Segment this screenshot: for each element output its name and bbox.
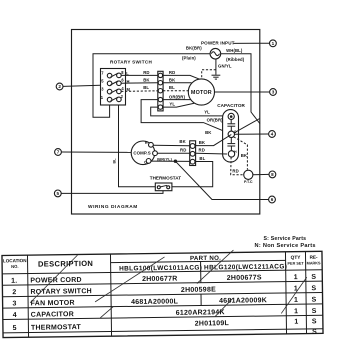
wire BK connector to capacitor C: [196, 135, 232, 146]
svg-text:2H01109L: 2H01109L: [195, 320, 230, 327]
callout circle 3: [270, 89, 277, 96]
svg-text:MOTOR: MOTOR: [191, 90, 212, 96]
svg-text:YL: YL: [169, 102, 175, 107]
svg-text:S: S: [312, 308, 317, 315]
wire OR(BR) connector to motor: [163, 99, 191, 101]
thermostat TH1: [150, 176, 181, 191]
wire RD connector to capacitor H: [196, 152, 227, 155]
svg-text:RD: RD: [169, 70, 175, 75]
svg-text:5: 5: [13, 325, 17, 332]
junction dot on comp C wire: [174, 160, 177, 163]
svg-text:GN/YL: GN/YL: [218, 63, 232, 68]
svg-text:RD: RD: [143, 70, 149, 75]
svg-text:RE-: RE-: [310, 255, 318, 260]
callout line to 5: [61, 191, 163, 194]
svg-text:6: 6: [271, 197, 274, 202]
svg-text:2: 2: [12, 289, 16, 296]
wire RD comp S to connector: [157, 152, 189, 154]
callout line to 2: [63, 85, 100, 86]
compressor COMP: [131, 141, 157, 165]
svg-text:POWER CORD: POWER CORD: [30, 277, 82, 285]
svg-text:BK: BK: [241, 153, 248, 158]
svg-text:5: 5: [57, 191, 60, 196]
svg-text:2H00677R: 2H00677R: [142, 276, 178, 283]
svg-text:ROTARY SWITCH: ROTARY SWITCH: [110, 60, 152, 65]
svg-text:4: 4: [271, 132, 274, 137]
svg-text:LOCATION: LOCATION: [3, 258, 27, 263]
svg-text:(BR(YL): (BR(YL): [157, 156, 173, 161]
wire capacitor C to power line: [234, 119, 260, 134]
svg-text:BK: BK: [199, 140, 206, 145]
callout circle 5: [54, 190, 61, 197]
callout line to 8: [253, 173, 269, 175]
svg-text:RD: RD: [180, 147, 186, 152]
wire switch pin2 down to thermostat: [119, 105, 156, 187]
svg-text:THERMOSTAT: THERMOSTAT: [31, 324, 82, 332]
callout circle 7: [55, 149, 62, 156]
svg-text:4: 4: [13, 312, 17, 319]
wire RD connector to motor: [163, 75, 200, 79]
svg-text:1: 1: [294, 308, 298, 315]
callout circle 4: [269, 131, 276, 138]
wire YL connector to motor: [163, 103, 194, 107]
terminal middle C: [228, 131, 234, 137]
cap symbol top section: [230, 120, 232, 124]
wire GN/YL to ground: [215, 59, 217, 75]
switch wipers: [110, 73, 118, 77]
connector CN2 (4-pin strip): [190, 141, 196, 166]
dashed ground to motor frame: [202, 70, 216, 79]
terminal bottom H: [228, 151, 234, 157]
svg-text:QTY: QTY: [291, 255, 302, 261]
PTC relay: [244, 170, 253, 184]
power input plug P1: [93, 41, 269, 124]
svg-text:4681A20009K: 4681A20009K: [219, 297, 267, 305]
AC source symbol: [210, 48, 221, 59]
callout line to 4: [234, 133, 268, 135]
wire BK comp R to connector: [153, 144, 190, 146]
svg-text:3: 3: [12, 301, 16, 308]
svg-text:WH(BL): WH(BL): [226, 48, 243, 53]
svg-text:PER SET: PER SET: [287, 262, 304, 266]
svg-text:HBLG100(LWC1011ACG): HBLG100(LWC1011ACG): [119, 264, 202, 272]
svg-text:THERMOSTAT: THERMOSTAT: [150, 176, 181, 181]
wire BL connector to thermostat: [172, 162, 213, 187]
wire BL (dashed) switch to connector: [121, 90, 158, 93]
wire OR(BR) routing to capacitor middle: [141, 100, 231, 135]
svg-text:RD: RD: [199, 147, 205, 152]
svg-text:1.: 1.: [11, 278, 17, 285]
svg-text:S: Service Parts: S: Service Parts: [264, 236, 307, 242]
svg-text:2H00598E: 2H00598E: [181, 286, 216, 293]
svg-text:1: 1: [294, 319, 298, 326]
svg-text:POWER INPUT: POWER INPUT: [201, 41, 235, 46]
svg-text:S: S: [312, 318, 317, 325]
callout circle 2: [56, 83, 63, 90]
svg-text:1: 1: [294, 274, 298, 281]
svg-text:4681A20000L: 4681A20000L: [131, 298, 179, 306]
svg-text:PART NO.: PART NO.: [190, 255, 221, 262]
svg-text:1: 1: [294, 285, 298, 292]
svg-text:2: 2: [58, 84, 61, 89]
svg-text:CAPACITOR: CAPACITOR: [31, 311, 74, 319]
svg-text:R: R: [145, 141, 148, 145]
svg-text:BK: BK: [179, 139, 186, 144]
callout line to 7: [61, 151, 131, 153]
svg-text:BK: BK: [169, 77, 176, 82]
wire BR(YL) comp C to connector: [151, 160, 190, 162]
svg-text:BL: BL: [199, 156, 205, 161]
wire WH(BL) power to right: [221, 54, 260, 124]
svg-text:H: H: [234, 150, 237, 154]
svg-text:CAPACITOR: CAPACITOR: [217, 103, 245, 108]
svg-text:2H00677S: 2H00677S: [227, 274, 262, 281]
svg-text:FAN MOTOR: FAN MOTOR: [31, 300, 75, 308]
dashed wire BK capacitor C to PTC: [234, 137, 248, 170]
callout circle 6: [269, 196, 276, 203]
svg-text:BL: BL: [169, 85, 175, 90]
svg-text:1: 1: [294, 297, 298, 304]
connector CN1 (6-pin strip): [158, 71, 163, 111]
pointer line to callout 1: [234, 42, 270, 44]
svg-text:ROTARY SWITCH: ROTARY SWITCH: [30, 288, 92, 296]
wire to callout 6: [175, 161, 268, 199]
svg-text:COMP.S: COMP.S: [133, 151, 150, 156]
capacitor C1: [217, 103, 245, 162]
svg-text:BL: BL: [143, 85, 149, 90]
wire BL (dashed) connector to motor: [163, 90, 189, 92]
svg-text:P.T.C: P.T.C: [244, 180, 253, 184]
svg-text:RD: RD: [232, 168, 238, 173]
svg-text:S: S: [311, 285, 316, 292]
cap symbol bottom section: [230, 138, 232, 144]
svg-text:6120AR2194K: 6120AR2194K: [176, 309, 225, 317]
svg-text:BL: BL: [113, 158, 117, 164]
wire YL routing to capacitor top: [151, 107, 229, 116]
svg-text:WIRING DIAGRAM: WIRING DIAGRAM: [88, 204, 138, 210]
svg-text:NO.: NO.: [11, 264, 19, 269]
wire BK connector to motor: [163, 82, 191, 84]
svg-text:BK: BK: [143, 78, 150, 83]
svg-text:S: S: [311, 274, 316, 281]
svg-text:7: 7: [57, 150, 60, 155]
svg-text:YL: YL: [204, 110, 210, 115]
wire BK(BR) power routing to switch pin 1: [93, 54, 210, 118]
callout line to 3: [215, 91, 270, 93]
svg-text:HBLG120(LWC1211ACG): HBLG120(LWC1211ACG): [204, 263, 287, 271]
wire BK switch to connector: [121, 82, 158, 84]
svg-text:(Plain): (Plain): [182, 55, 196, 60]
table grid: [2, 251, 323, 337]
svg-text:S: S: [312, 329, 317, 336]
svg-text:OR(BR): OR(BR): [169, 95, 186, 100]
wiring diagram outer box: [72, 30, 260, 215]
svg-text:OR(BR): OR(BR): [207, 117, 224, 122]
wire RD switch to connector: [121, 74, 158, 76]
svg-text:8: 8: [271, 172, 274, 177]
svg-text:S: S: [312, 297, 317, 304]
svg-text:MARKS: MARKS: [307, 261, 321, 265]
callout circle 8: [269, 171, 276, 178]
callout circle 1: [270, 40, 277, 47]
terminal top: [228, 113, 234, 119]
svg-text:N: Non Service Parts: N: Non Service Parts: [255, 243, 316, 249]
svg-text:BK: BK: [205, 130, 212, 135]
svg-text:BK(BR): BK(BR): [186, 45, 202, 50]
fan motor M1: [188, 79, 214, 105]
rotary switch S1: [101, 60, 153, 106]
svg-text:1: 1: [272, 41, 275, 46]
svg-text:3: 3: [272, 90, 275, 95]
svg-text:(Ribbed): (Ribbed): [226, 57, 245, 62]
ground symbol: [212, 75, 221, 79]
dashed wire RD capacitor H to PTC: [231, 157, 244, 175]
scan artifact slashes: [29, 249, 307, 319]
